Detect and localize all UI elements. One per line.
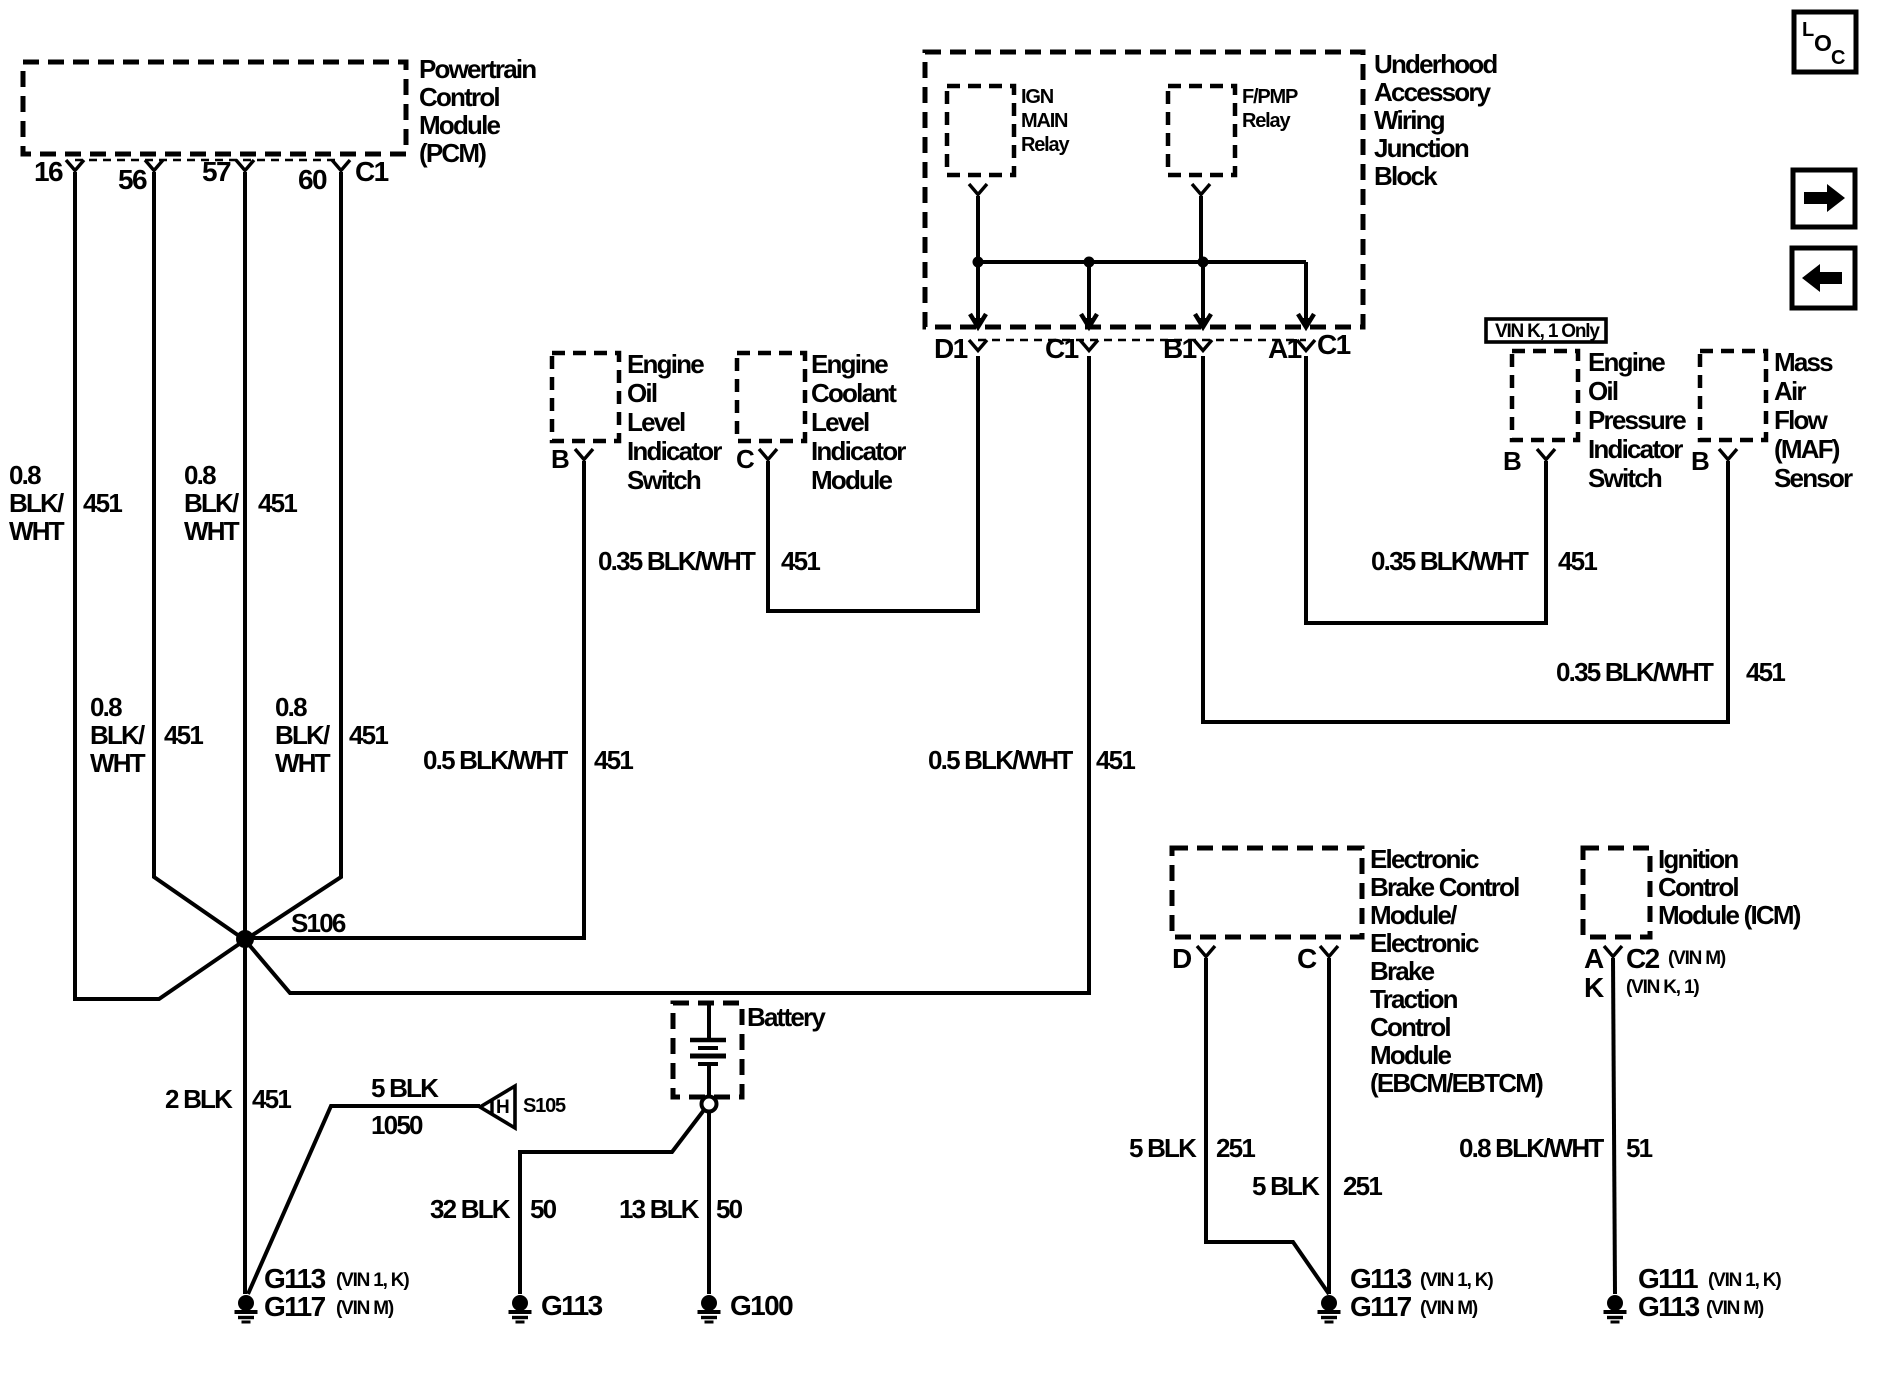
svg-text:Sensor: Sensor	[1774, 463, 1853, 493]
svg-text:Engine: Engine	[811, 349, 888, 379]
svg-text:Traction: Traction	[1370, 984, 1458, 1014]
svg-text:451: 451	[1096, 745, 1135, 775]
svg-text:Indicator: Indicator	[627, 436, 722, 466]
svg-text:G100: G100	[730, 1290, 793, 1321]
svg-text:60: 60	[298, 164, 327, 195]
svg-text:32 BLK: 32 BLK	[430, 1194, 511, 1224]
svg-text:50: 50	[530, 1194, 557, 1224]
UAWJB terminal A1	[1268, 333, 1315, 364]
Engine Oil Pressure Indicator Switch pin B	[1503, 446, 1555, 476]
svg-text:451: 451	[349, 720, 388, 750]
svg-text:H: H	[496, 1097, 509, 1118]
VIN K, 1 Only tag	[1486, 319, 1606, 342]
svg-text:Switch: Switch	[627, 465, 701, 495]
svg-text:A1: A1	[1268, 333, 1302, 364]
svg-text:S105: S105	[523, 1095, 566, 1117]
svg-text:IGN: IGN	[1021, 86, 1054, 108]
UAWJB terminal C1	[1045, 333, 1098, 364]
svg-text:S106: S106	[291, 908, 346, 938]
svg-text:Block: Block	[1374, 161, 1438, 191]
label 0.8 BLK/WHT 451 (pin 16 wire)	[9, 460, 122, 546]
svg-text:Engine: Engine	[1588, 347, 1665, 377]
svg-text:Electronic: Electronic	[1370, 844, 1479, 874]
svg-text:Air: Air	[1774, 376, 1806, 406]
label 0.35 BLK/WHT 451 (coolant wire)	[598, 546, 820, 576]
svg-text:BLK/: BLK/	[184, 488, 239, 518]
svg-text:B: B	[1503, 446, 1521, 476]
wire drop to terminal D1 with arrowhead	[970, 262, 986, 327]
forward arrow box	[1793, 170, 1855, 227]
svg-text:Underhood: Underhood	[1374, 49, 1497, 79]
PCM pin 57	[202, 156, 254, 187]
svg-text:C1: C1	[1317, 329, 1351, 360]
svg-text:MAIN: MAIN	[1021, 110, 1068, 132]
wire 5 BLK 251 from EBCM pin D to ground	[1206, 958, 1329, 1294]
label 0.5 BLK/WHT 451 (oil level wire)	[423, 745, 633, 775]
svg-text:Coolant: Coolant	[811, 378, 897, 408]
svg-text:50: 50	[716, 1194, 743, 1224]
label 5 BLK 1050	[371, 1073, 439, 1140]
svg-text:(VIN 1, K): (VIN 1, K)	[1708, 1270, 1781, 1291]
Engine Oil Pressure Indicator Switch label	[1588, 347, 1686, 493]
ICM label	[1658, 844, 1801, 930]
svg-text:2 BLK: 2 BLK	[165, 1084, 233, 1114]
svg-text:451: 451	[83, 488, 122, 518]
svg-text:(MAF): (MAF)	[1774, 434, 1840, 464]
wire 0.8 BLK/WHT 451 from PCM pin 60 to splice S106	[245, 172, 341, 940]
label 32 BLK 50	[430, 1194, 557, 1224]
MAF sensor label	[1774, 347, 1853, 493]
svg-text:(VIN M): (VIN M)	[336, 1298, 394, 1319]
svg-text:A: A	[1584, 943, 1604, 974]
junction dot at D1 drop	[973, 257, 984, 268]
IGN MAIN Relay box	[947, 86, 1014, 175]
svg-text:BLK/: BLK/	[90, 720, 145, 750]
Engine Oil Level Indicator Switch label	[627, 349, 722, 495]
MAF sensor pin B	[1691, 446, 1737, 476]
EBCM pin C	[1297, 943, 1338, 974]
svg-text:(VIN M): (VIN M)	[1420, 1298, 1478, 1319]
svg-text:Pressure: Pressure	[1588, 405, 1686, 435]
svg-text:C: C	[1831, 47, 1845, 69]
svg-text:Brake Control: Brake Control	[1370, 872, 1519, 902]
wire 32 BLK 50 from battery to ground G113	[520, 1110, 704, 1294]
svg-text:5 BLK: 5 BLK	[1129, 1133, 1197, 1163]
svg-text:F/PMP: F/PMP	[1242, 86, 1298, 108]
svg-text:B: B	[1691, 446, 1709, 476]
PCM pin 56	[118, 160, 163, 195]
svg-text:5 BLK: 5 BLK	[1252, 1171, 1320, 1201]
wire drop to terminal B1 with arrowhead	[1195, 262, 1211, 327]
svg-text:Powertrain: Powertrain	[419, 54, 536, 84]
svg-text:(VIN M): (VIN M)	[1706, 1298, 1764, 1319]
svg-text:C1: C1	[1045, 333, 1079, 364]
svg-text:(VIN 1, K): (VIN 1, K)	[336, 1270, 409, 1291]
svg-text:Control: Control	[419, 82, 499, 112]
F/PMP Relay label	[1242, 86, 1298, 132]
svg-text:451: 451	[258, 488, 297, 518]
svg-text:0.8: 0.8	[275, 692, 307, 722]
svg-text:451: 451	[164, 720, 203, 750]
svg-text:L: L	[1802, 19, 1814, 41]
svg-text:O: O	[1814, 30, 1832, 56]
svg-text:BLK/: BLK/	[9, 488, 64, 518]
svg-text:Relay: Relay	[1021, 134, 1070, 156]
svg-text:Control: Control	[1370, 1012, 1450, 1042]
wire 0.8 BLK/WHT 451 from PCM pin 16 to splice S106	[75, 172, 245, 999]
wire 5 BLK 1050 from ground to splice S105	[248, 1106, 480, 1294]
svg-text:G113: G113	[1350, 1263, 1412, 1294]
svg-text:0.5 BLK/WHT: 0.5 BLK/WHT	[423, 745, 568, 775]
label 13 BLK 50	[619, 1194, 743, 1224]
svg-text:0.35 BLK/WHT: 0.35 BLK/WHT	[1371, 546, 1529, 576]
svg-text:Module/: Module/	[1370, 900, 1457, 930]
Engine Coolant Level Indicator Module box	[737, 353, 805, 441]
svg-text:G117: G117	[1350, 1291, 1412, 1322]
ground G111/G113 (ICM)	[1604, 1263, 1782, 1322]
label 0.35 BLK/WHT 451 (oil pressure wire)	[1371, 546, 1597, 576]
svg-text:C1: C1	[355, 156, 389, 187]
wire 5 BLK 251 from EBCM pin C to ground	[1327, 958, 1331, 1294]
svg-text:Junction: Junction	[1374, 133, 1469, 163]
svg-text:K: K	[1584, 972, 1604, 1003]
svg-text:Control: Control	[1658, 872, 1738, 902]
Engine Oil Level Indicator Switch pin B	[551, 444, 593, 474]
wire 0.35 BLK/WHT 451 from UAWJB terminal B1 to MAF sensor pin B	[1203, 356, 1728, 722]
ICM pin A/K	[1584, 943, 1622, 1003]
Mass Air Flow (MAF) Sensor box	[1700, 351, 1766, 440]
wire 0.8 BLK/WHT 451 from PCM pin 56 to splice S106	[154, 172, 245, 940]
svg-text:BLK/: BLK/	[275, 720, 330, 750]
svg-text:0.8: 0.8	[9, 460, 41, 490]
svg-text:0.5 BLK/WHT: 0.5 BLK/WHT	[928, 745, 1073, 775]
wire drop to terminal A1 with arrowhead	[1298, 262, 1314, 327]
Battery box and symbol	[673, 1003, 742, 1097]
svg-text:Electronic: Electronic	[1370, 928, 1479, 958]
svg-text:C2: C2	[1626, 943, 1660, 974]
svg-text:0.35 BLK/WHT: 0.35 BLK/WHT	[598, 546, 756, 576]
wire 0.35 BLK/WHT 451 from UAWJB terminal A1/C1 to oil pressure switch pin B	[1306, 356, 1546, 623]
label 0.5 BLK/WHT 451 (junction block wire)	[928, 745, 1135, 775]
splice S106	[236, 908, 346, 948]
label 0.8 BLK/WHT 451 (pin 60 wire)	[275, 692, 388, 778]
UAWJB connector C1 label	[1317, 329, 1351, 360]
wire 0.8 BLK/WHT 51 from ICM to ground	[1613, 958, 1615, 1294]
EBCM/EBTCM box	[1172, 848, 1362, 937]
svg-text:Oil: Oil	[627, 378, 657, 408]
svg-text:(VIN 1, K): (VIN 1, K)	[1420, 1270, 1493, 1291]
wire 0.5 BLK/WHT 451 from S106 to Engine Oil Level Indicator Switch pin B	[245, 461, 584, 938]
wire 13 BLK 50 from battery to ground G100	[707, 1112, 711, 1294]
LOC legend box	[1794, 12, 1856, 72]
svg-text:G117: G117	[264, 1291, 326, 1322]
svg-text:Indicator: Indicator	[811, 436, 906, 466]
F/PMP Relay box	[1168, 86, 1235, 175]
splice S105 symbol	[480, 1086, 566, 1128]
UAWJB terminal D1	[934, 333, 987, 364]
label 5 BLK 251 (pin C wire)	[1252, 1171, 1382, 1201]
ICM connector C2 label	[1626, 943, 1726, 998]
svg-text:Module: Module	[1370, 1040, 1452, 1070]
UAWJB terminal B1	[1163, 333, 1212, 364]
PCM label	[419, 54, 536, 168]
Ignition Control Module (ICM) box	[1583, 848, 1650, 937]
svg-text:451: 451	[781, 546, 820, 576]
label 0.8 BLK/WHT 451 (pin 56 wire)	[90, 692, 203, 778]
svg-text:51: 51	[1626, 1133, 1653, 1163]
svg-text:D: D	[1172, 943, 1192, 974]
svg-text:(PCM): (PCM)	[419, 138, 486, 168]
svg-text:G113: G113	[1638, 1291, 1700, 1322]
svg-text:(EBCM/EBTCM): (EBCM/EBTCM)	[1370, 1068, 1543, 1098]
UAWJB label	[1374, 49, 1497, 191]
bus wire inside junction block	[978, 260, 1306, 264]
wire 0.5 BLK/WHT 451 from S106 to UAWJB terminal C1	[245, 356, 1089, 993]
svg-text:451: 451	[1746, 657, 1785, 687]
svg-text:57: 57	[202, 156, 231, 187]
svg-text:16: 16	[34, 156, 63, 187]
svg-text:(VIN K, 1): (VIN K, 1)	[1626, 977, 1699, 998]
svg-text:0.8 BLK/WHT: 0.8 BLK/WHT	[1459, 1133, 1604, 1163]
Battery label	[747, 1002, 826, 1032]
wire 0.35 BLK/WHT 451 from coolant module pin C to UAWJB terminal D1	[768, 356, 978, 611]
Underhood Accessory Wiring Junction Block box	[925, 52, 1363, 340]
svg-text:Module: Module	[811, 465, 893, 495]
svg-text:WHT: WHT	[184, 516, 240, 546]
svg-text:251: 251	[1216, 1133, 1255, 1163]
svg-text:Module: Module	[419, 110, 501, 140]
label 5 BLK 251 (pin D wire)	[1129, 1133, 1255, 1163]
svg-text:Brake: Brake	[1370, 956, 1435, 986]
back arrow box	[1792, 248, 1855, 308]
svg-text:WHT: WHT	[90, 748, 146, 778]
F/PMP Relay pin connector	[1192, 184, 1210, 262]
svg-text:G111: G111	[1638, 1263, 1698, 1294]
PCM pin 16	[34, 156, 84, 187]
svg-text:WHT: WHT	[275, 748, 331, 778]
svg-text:Indicator: Indicator	[1588, 434, 1683, 464]
IGN MAIN Relay label	[1021, 86, 1070, 156]
battery negative terminal node	[702, 1097, 717, 1112]
svg-text:56: 56	[118, 164, 147, 195]
svg-text:Flow: Flow	[1774, 405, 1829, 435]
PCM pin 60	[298, 160, 350, 195]
svg-text:Ignition: Ignition	[1658, 844, 1738, 874]
ground G113 (center)	[509, 1290, 603, 1322]
svg-text:451: 451	[594, 745, 633, 775]
svg-text:5 BLK: 5 BLK	[371, 1073, 439, 1103]
svg-text:13 BLK: 13 BLK	[619, 1194, 700, 1224]
svg-text:G113: G113	[541, 1290, 603, 1321]
svg-text:Engine: Engine	[627, 349, 704, 379]
svg-text:Switch: Switch	[1588, 463, 1662, 493]
wire 2 BLK 451 from PCM pin 57 through S106 to ground G113/G117	[243, 172, 247, 1294]
svg-text:Battery: Battery	[747, 1002, 826, 1032]
svg-text:WHT: WHT	[9, 516, 65, 546]
svg-text:B: B	[551, 444, 569, 474]
junction dot at C1 drop	[1084, 257, 1095, 268]
EBCM/EBTCM label	[1370, 844, 1543, 1098]
svg-text:C: C	[1297, 943, 1317, 974]
svg-text:Level: Level	[811, 407, 869, 437]
ground G113/G117 (EBCM)	[1318, 1263, 1494, 1322]
Engine Coolant Level Indicator Module label	[811, 349, 906, 495]
svg-text:0.35 BLK/WHT: 0.35 BLK/WHT	[1556, 657, 1714, 687]
PCM connector C1 label	[355, 156, 389, 187]
label 0.8 BLK/WHT 451 (pin 57 wire)	[184, 460, 297, 546]
svg-text:1050: 1050	[371, 1110, 423, 1140]
svg-text:B1: B1	[1163, 333, 1197, 364]
EBCM pin D	[1172, 943, 1215, 974]
svg-text:Mass: Mass	[1774, 347, 1833, 377]
IGN MAIN Relay pin connector	[969, 184, 987, 262]
svg-text:G113: G113	[264, 1263, 326, 1294]
svg-text:Relay: Relay	[1242, 110, 1291, 132]
label 0.8 BLK/WHT 51	[1459, 1133, 1653, 1163]
svg-text:451: 451	[1558, 546, 1597, 576]
label 0.35 BLK/WHT 451 (MAF wire)	[1556, 657, 1785, 687]
svg-text:(VIN M): (VIN M)	[1668, 948, 1726, 969]
svg-text:D1: D1	[934, 333, 968, 364]
ground G113/G117 (left, PCM wire)	[235, 1263, 410, 1322]
svg-text:0.8: 0.8	[90, 692, 122, 722]
svg-text:451: 451	[252, 1084, 291, 1114]
Engine Oil Pressure Indicator Switch box	[1512, 351, 1578, 440]
Engine Coolant Level Indicator Module pin C	[736, 444, 777, 474]
svg-text:251: 251	[1343, 1171, 1382, 1201]
svg-text:Level: Level	[627, 407, 685, 437]
ground G100	[698, 1290, 794, 1322]
svg-text:C: C	[736, 444, 755, 474]
svg-text:Module (ICM): Module (ICM)	[1658, 900, 1801, 930]
junction dot at B1 drop	[1198, 257, 1209, 268]
wire drop to terminal C1 with arrowhead	[1081, 262, 1097, 327]
label 2 BLK 451	[165, 1084, 291, 1114]
svg-text:Oil: Oil	[1588, 376, 1618, 406]
svg-text:Wiring: Wiring	[1374, 105, 1445, 135]
svg-text:Accessory: Accessory	[1374, 77, 1492, 107]
Powertrain Control Module (PCM) box	[23, 62, 406, 160]
svg-text:0.8: 0.8	[184, 460, 216, 490]
svg-text:VIN K, 1 Only: VIN K, 1 Only	[1495, 321, 1600, 342]
Engine Oil Level Indicator Switch box	[552, 353, 619, 441]
